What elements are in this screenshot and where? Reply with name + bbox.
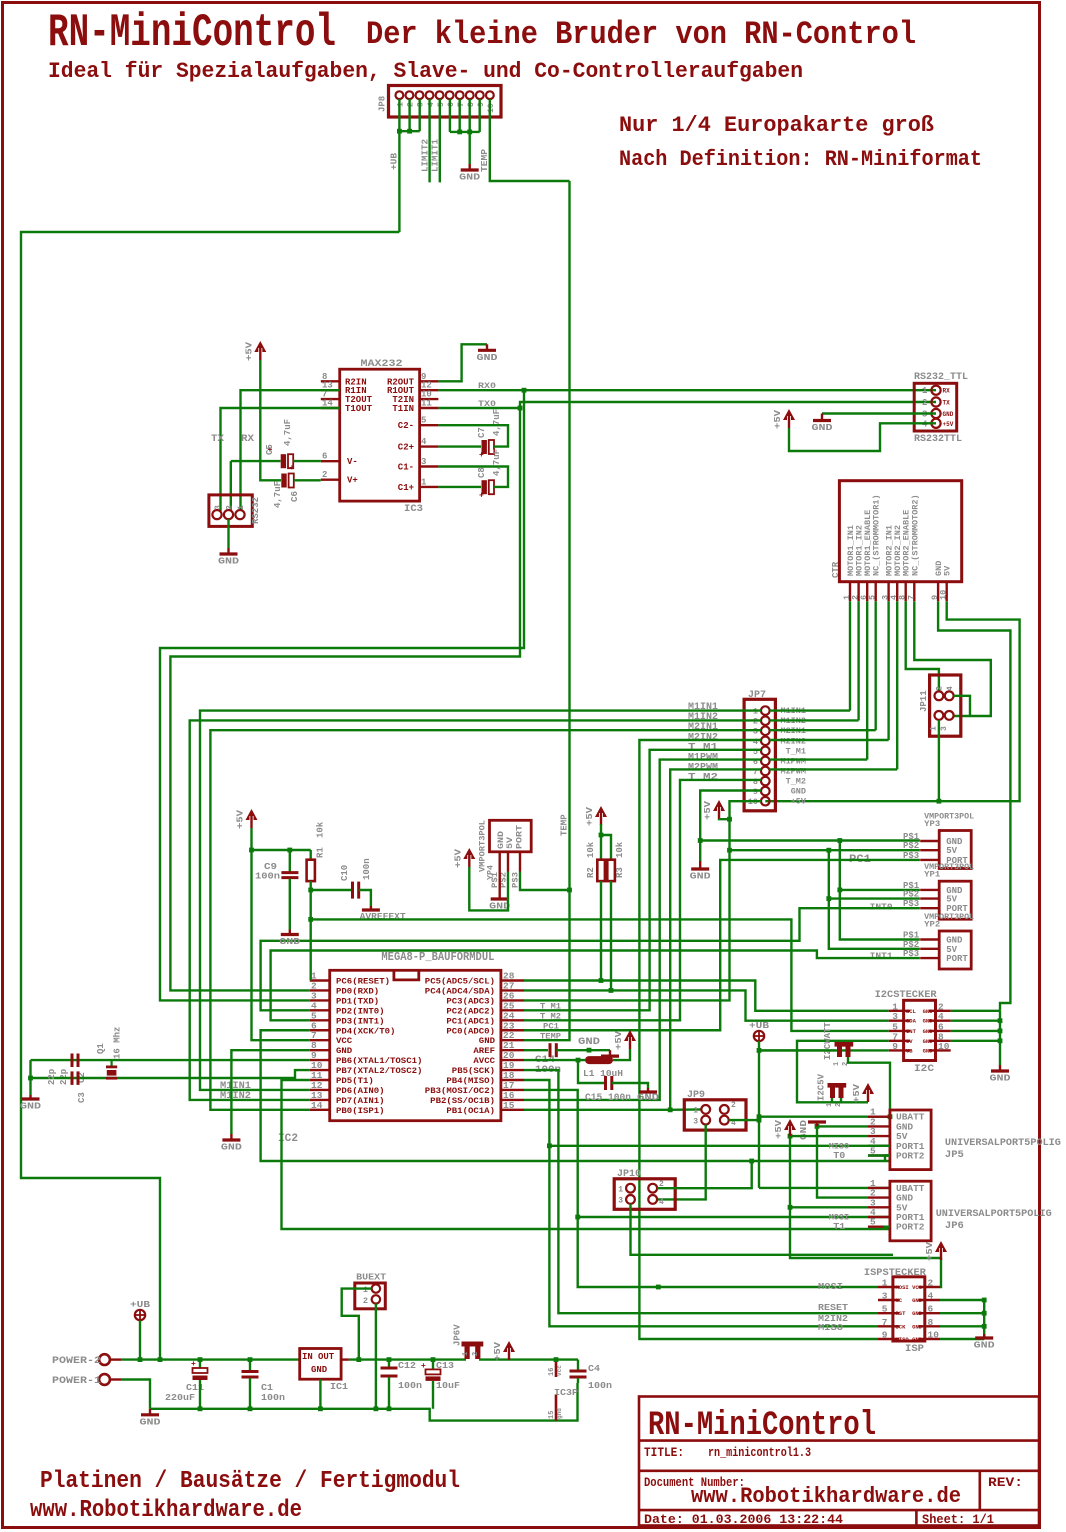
ground GND IC2 pin8 — [221, 1134, 242, 1153]
svg-text:PD7(AIN1): PD7(AIN1) — [336, 1096, 385, 1106]
junction I2C gnd bus — [998, 1038, 1003, 1043]
wire GND bus to YP3 P$1 — [700, 839, 920, 841]
svg-text:P$2: P$2 — [903, 890, 919, 900]
svg-text:4,7uF: 4,7uF — [492, 409, 502, 436]
wire JP8 pin7 down — [459, 99, 461, 132]
junction 5V bus YP1 — [826, 896, 831, 901]
svg-text:MOSI: MOSI — [818, 1281, 843, 1292]
svg-text:7: 7 — [882, 1317, 888, 1328]
svg-text:www.Robotikhardware.de: www.Robotikhardware.de — [30, 1497, 302, 1524]
svg-text:GND: GND — [336, 1046, 352, 1056]
svg-text:Q1: Q1 — [96, 1043, 106, 1054]
svg-text:T1: T1 — [833, 1221, 845, 1232]
svg-text:I2CSTECKER: I2CSTECKER — [875, 989, 938, 1001]
svg-text:YP4: YP4 — [487, 865, 496, 880]
svg-text:TEMP: TEMP — [480, 148, 490, 172]
svg-text:GND: GND — [218, 556, 239, 567]
wire CTR pin4 to M2PWM row — [896, 601, 898, 769]
wire M2PWM to JP9 pin1 — [670, 1108, 701, 1111]
svg-text:M2PWM: M2PWM — [780, 766, 806, 776]
junction TX0 — [518, 406, 523, 411]
wire INT1 YP2 to IC2 pin5 — [271, 951, 920, 1021]
wire C13 top lead — [432, 1360, 434, 1369]
svg-text:GND: GND — [477, 352, 498, 363]
svg-text:5: 5 — [882, 1304, 888, 1315]
ground GND below C9 — [279, 930, 300, 948]
wire R2OUT to GND — [438, 344, 487, 381]
connector RS232 — [209, 495, 261, 527]
svg-text:T_M2: T_M2 — [786, 777, 806, 787]
wire SDA IC2 pin27 to I2C pin3 — [524, 990, 889, 1020]
wire AVCC to L1 — [524, 1059, 585, 1061]
ground GND below JP8 — [459, 164, 480, 183]
svg-text:GND: GND — [279, 936, 300, 947]
junction BUEXT gnd — [374, 1406, 379, 1411]
junction IC1 gnd — [318, 1406, 323, 1411]
svg-text:T_M1: T_M1 — [540, 1002, 561, 1012]
junction 5V bus — [826, 848, 831, 853]
svg-text:I2C5V: I2C5V — [817, 1073, 827, 1101]
svg-text:V+: V+ — [347, 476, 358, 486]
svg-text:+5V: +5V — [773, 409, 783, 429]
connector JP8 — [378, 86, 502, 118]
wire YP4 P$1 to ground — [499, 872, 501, 895]
ground GND at JP5 — [816, 1122, 818, 1126]
wire RS232 pin2 to ground — [227, 519, 229, 548]
svg-text:1: 1 — [826, 1103, 834, 1107]
svg-text:RN-MiniControl: RN-MiniControl — [648, 1407, 876, 1445]
wire JP7 +5V down — [730, 801, 762, 850]
svg-text:GND: GND — [20, 1101, 41, 1112]
svg-text:GND: GND — [923, 1047, 934, 1054]
svg-text:8: 8 — [928, 1317, 934, 1328]
wire I2C right pin to gnd bus — [951, 1010, 1000, 1012]
wire TEMP from JP8 pin10 — [490, 99, 570, 181]
wire JP11 pin4 — [954, 696, 971, 716]
wire JP7 pin1 east to CTR pin1 — [770, 709, 850, 711]
svg-text:+: + — [479, 451, 484, 460]
svg-text:4: 4 — [928, 1291, 934, 1302]
svg-text:SCL: SCL — [906, 1008, 917, 1015]
wire +5V rail to VCC pin7 — [252, 828, 310, 1040]
svg-text:4: 4 — [753, 737, 758, 747]
svg-text:JP7: JP7 — [748, 690, 766, 701]
capacitor C2 22p — [72, 1054, 78, 1068]
capacitor C6 4,7uF — [273, 464, 300, 508]
wire ISP even pin to gnd — [940, 1325, 984, 1327]
wire IC2 pin26 east to 5V bus — [524, 850, 730, 1000]
svg-text:PC0(ADC0): PC0(ADC0) — [446, 1026, 495, 1036]
wire GND bus to YP1 P$1 — [840, 889, 920, 891]
svg-text:+UB: +UB — [390, 152, 400, 170]
svg-text:100n: 100n — [588, 1380, 612, 1391]
junction RX0 — [522, 388, 527, 393]
svg-text:5V: 5V — [946, 846, 957, 856]
svg-text:NC_(STROMMOTOR2): NC_(STROMMOTOR2) — [911, 494, 920, 576]
svg-text:GND: GND — [923, 1038, 934, 1045]
svg-text:3: 3 — [421, 457, 426, 467]
svg-text:10k: 10k — [615, 841, 625, 858]
svg-text:PC3(ADC3): PC3(ADC3) — [446, 996, 495, 1006]
+5V supply arrow at JP7 — [703, 800, 725, 820]
svg-text:2: 2 — [407, 102, 416, 107]
wire M2IN1 JP7 to IC2 pin14 — [210, 730, 761, 1110]
svg-text:4: 4 — [421, 437, 427, 447]
svg-text:5V: 5V — [946, 895, 957, 905]
wire MOSI IC2 pin17 to ISP pin1 — [524, 1090, 878, 1287]
svg-text:C2+: C2+ — [398, 443, 414, 453]
svg-text:VCC: VCC — [912, 1284, 923, 1291]
svg-text:C2-: C2- — [398, 421, 414, 431]
wire POWER-1 to GND rail — [121, 1380, 150, 1409]
ground GND above IC3 — [477, 344, 498, 363]
junction ISP gnd bus — [982, 1311, 987, 1316]
svg-text:PB2(SS/OC1B): PB2(SS/OC1B) — [430, 1096, 495, 1106]
wire C11 top lead — [199, 1360, 201, 1368]
svg-text:T_M2: T_M2 — [540, 1012, 561, 1022]
svg-text:10k: 10k — [316, 821, 326, 838]
wire XTAL2 to crystal/C3 — [31, 1070, 310, 1078]
junction 5V JP5 — [788, 1134, 793, 1139]
svg-text:L1 10uH: L1 10uH — [583, 1068, 623, 1079]
svg-text:RX: RX — [241, 434, 254, 445]
junction AVREFEXT — [308, 917, 313, 922]
wire I2C pin7 to +5V via I2C5V — [797, 1041, 889, 1103]
connector CTR motor control — [831, 481, 962, 602]
junction GND bus — [698, 838, 703, 843]
wire RESET vertical — [310, 890, 312, 981]
junction +UB left rail — [158, 1357, 163, 1362]
wire R1 bottom lead — [310, 881, 312, 890]
svg-text:5V: 5V — [944, 566, 953, 576]
svg-text:MAX232: MAX232 — [361, 359, 403, 370]
wire 5V rail east — [479, 1358, 578, 1360]
wire +UB left rail — [21, 232, 399, 1360]
svg-text:GND: GND — [912, 1323, 923, 1330]
svg-text:C10: C10 — [340, 865, 350, 881]
svg-text:1: 1 — [397, 102, 406, 107]
wire JP9 pin4 to UB rail — [729, 1119, 759, 1121]
wire JP8 pins1-3 join — [399, 130, 419, 132]
svg-text:PORT2: PORT2 — [896, 1151, 925, 1162]
wire JP7 pin2 east to CTR pin2 — [770, 719, 859, 721]
junction C11 gnd — [198, 1406, 203, 1411]
svg-text:PC1: PC1 — [543, 1022, 559, 1032]
wire GND rail bottom — [150, 1383, 578, 1421]
jumper I2C5V — [828, 1083, 847, 1098]
svg-text:4,7uF: 4,7uF — [283, 419, 293, 446]
wire R1 to C10 — [311, 889, 351, 891]
junction C11 top — [198, 1357, 203, 1362]
wire JP7 pin4 east to CTR pin3 — [770, 739, 889, 741]
junction SCL R2 — [599, 978, 604, 983]
svg-text:www.Robotikhardware.de: www.Robotikhardware.de — [691, 1484, 961, 1509]
svg-text:GND: GND — [912, 1310, 923, 1317]
svg-text:C8: C8 — [477, 467, 487, 478]
svg-text:Ideal für Spezialaufgaben, Sla: Ideal für Spezialaufgaben, Slave- und Co… — [48, 59, 803, 84]
svg-text:5: 5 — [870, 1217, 876, 1228]
svg-text:1: 1 — [833, 1062, 841, 1066]
svg-text:C3: C3 — [77, 1092, 87, 1103]
wire R1 top lead — [310, 850, 312, 860]
svg-text:GND: GND — [912, 1336, 923, 1343]
svg-text:NC: NC — [896, 1297, 903, 1304]
svg-text:1: 1 — [882, 1278, 888, 1289]
svg-text:+5V: +5V — [791, 797, 807, 807]
wire MISO to JP5 PORT1 — [549, 1145, 890, 1147]
wire UBATT to JP6 pin1 — [759, 1187, 890, 1189]
wire R2 top — [600, 824, 602, 860]
wire JP8 pins6-9 join — [450, 131, 480, 133]
svg-text:vcc: vcc — [556, 1365, 563, 1376]
svg-text:4: 4 — [427, 102, 436, 107]
wire JP5 GND — [817, 1125, 868, 1127]
connector YP2 VMPORT3POL — [903, 913, 974, 969]
ground GND below RS232 — [218, 548, 239, 567]
wire JP5 PORT1 stub — [868, 1145, 890, 1147]
wire I2C pin9 to +UB — [759, 1049, 889, 1051]
wire M1PWM JP7 to IC2 pin16 — [524, 760, 761, 1100]
svg-text:2: 2 — [835, 1103, 843, 1107]
wire JP8 pin1 down — [398, 99, 400, 131]
svg-text:LIMIT1: LIMIT1 — [431, 138, 441, 172]
wire I2C right pin to gnd bus — [951, 1020, 1000, 1022]
wire PC1 YP3 to IC2 pin23 — [524, 860, 920, 1030]
connector YP4 VMPORT3POL — [479, 820, 532, 888]
svg-text:LIMIT2: LIMIT2 — [421, 139, 431, 172]
resistor R3 10k — [607, 860, 615, 881]
junction BUEXT rail — [356, 1357, 361, 1362]
svg-text:C1-: C1- — [398, 463, 414, 473]
svg-text:PB7(XTAL2/TOSC2): PB7(XTAL2/TOSC2) — [336, 1066, 422, 1076]
svg-text:YP3: YP3 — [924, 820, 940, 829]
svg-text:4,7uF: 4,7uF — [492, 449, 502, 476]
svg-text:JP9: JP9 — [687, 1090, 705, 1101]
junction JP8 gnd a — [457, 130, 462, 135]
svg-text:IC3: IC3 — [404, 504, 423, 515]
svg-text:1: 1 — [462, 1352, 470, 1356]
wire C9 bottom lead — [289, 879, 291, 930]
wire RX to RS232 pin1 — [241, 390, 340, 511]
junction GND bus to YP1/YP2 — [837, 838, 842, 843]
wire 5V bus to YP1 P$2 — [829, 897, 920, 899]
junction I2C gnd bus — [998, 1029, 1003, 1034]
svg-text:INT1: INT1 — [870, 952, 894, 962]
svg-text:C15 100n: C15 100n — [585, 1093, 631, 1104]
svg-text:M1PWM: M1PWM — [780, 756, 806, 766]
wire IC1 GND lead — [319, 1379, 321, 1409]
svg-text:100n: 100n — [255, 871, 280, 882]
svg-text:RS232: RS232 — [251, 497, 261, 524]
wire GND to JP6 pin2 — [817, 1126, 868, 1197]
svg-text:5: 5 — [437, 102, 446, 107]
svg-text:POWER-2: POWER-2 — [52, 1356, 101, 1367]
wire ISP even pin to gnd — [940, 1338, 984, 1340]
svg-text:PB1(OC1A): PB1(OC1A) — [446, 1106, 495, 1116]
svg-text:T1IN: T1IN — [392, 404, 414, 414]
wire JP8 pin3 down — [419, 99, 421, 131]
wire YP4 P$2 to +5V — [469, 867, 508, 910]
svg-text:PORT2: PORT2 — [896, 1222, 925, 1233]
svg-text:PD4(XCK/T0): PD4(XCK/T0) — [336, 1026, 395, 1036]
wire C10 to GND — [359, 890, 371, 906]
wire I2C right pin to gnd bus — [951, 1040, 1000, 1042]
ground GND below JP7 — [690, 861, 711, 882]
svg-text:1: 1 — [618, 1186, 623, 1195]
regulator IC1 — [300, 1349, 349, 1393]
+UB supply at I2C — [749, 1020, 769, 1041]
svg-text:GND: GND — [974, 1340, 995, 1351]
junction C12 top — [387, 1357, 392, 1362]
svg-text:5V: 5V — [505, 836, 515, 849]
crystal Q1 16 MHz — [96, 1027, 123, 1079]
svg-text:220uF: 220uF — [165, 1392, 195, 1403]
wire +UB to I2CWATT pin1 — [759, 1049, 836, 1051]
svg-text:TX: TX — [211, 434, 224, 445]
svg-text:1: 1 — [930, 726, 939, 731]
junction +5V C9/R1 — [249, 848, 254, 853]
svg-text:7: 7 — [906, 595, 916, 600]
junction R1 bottom — [308, 888, 313, 893]
wire ISP pin2 to +5V — [940, 1258, 941, 1287]
junction MOSI branch — [656, 1285, 661, 1290]
svg-text:16 Mhz: 16 Mhz — [113, 1027, 123, 1059]
svg-text:Der kleine Bruder von RN-Contr: Der kleine Bruder von RN-Control — [366, 16, 916, 53]
+UB supply at power input — [130, 1299, 150, 1320]
svg-text:REV:: REV: — [988, 1475, 1023, 1490]
junction I2C gnd bus — [998, 1018, 1003, 1023]
connector BUEXT — [355, 1272, 387, 1309]
wire I2C right pin to gnd bus — [951, 1030, 1000, 1032]
ground GND at C15 — [639, 1088, 657, 1092]
wire +5V to R1 top — [252, 849, 311, 851]
svg-text:10: 10 — [939, 590, 949, 600]
svg-text:PD3(INT1): PD3(INT1) — [336, 1016, 385, 1026]
svg-text:RESET: RESET — [818, 1302, 848, 1313]
+5V supply arrow at IC3 — [244, 341, 266, 361]
ground GND at I2C — [990, 1065, 1011, 1084]
wire RESET net IC2 pin19 to ISP pin5 — [524, 1070, 878, 1313]
wire M1IN2 JP7 to IC2 pin13 — [190, 720, 761, 1100]
svg-text:C5: C5 — [265, 444, 275, 455]
+5V supply arrow at ISP — [925, 1241, 947, 1261]
svg-text:JP10: JP10 — [617, 1169, 641, 1180]
wire R3 top — [601, 835, 611, 860]
svg-text:100n: 100n — [261, 1392, 285, 1403]
svg-text:UNIVERSALPORT5POLIG: UNIVERSALPORT5POLIG — [945, 1137, 1061, 1149]
svg-text:GND: GND — [459, 172, 480, 183]
connector ISP ISPSTECKER — [864, 1267, 940, 1355]
svg-text:6: 6 — [447, 102, 456, 107]
svg-text:T_M2: T_M2 — [688, 773, 718, 784]
+5V supply arrow at JP5 — [774, 1119, 796, 1139]
svg-text:10: 10 — [938, 1041, 950, 1052]
wire CTR pin3 to M2IN2 row — [887, 601, 889, 740]
svg-text:Date: 01.03.2006 13:22:44: Date: 01.03.2006 13:22:44 — [644, 1512, 843, 1527]
svg-text:+5V: +5V — [614, 1030, 624, 1050]
wire CTR pin7 to JP11 pin3 — [914, 601, 991, 716]
junction JP10 T0 — [749, 1159, 754, 1164]
svg-text:5: 5 — [421, 416, 426, 426]
junction YP4 TEMP — [567, 888, 572, 893]
junction ISP gnd bus — [982, 1324, 987, 1329]
svg-text:PB4(MISO): PB4(MISO) — [446, 1076, 495, 1086]
wire IC1 OUT to JP6V — [349, 1358, 466, 1360]
connector JP11 — [919, 675, 961, 736]
wire AVREFEXT to I2C pin5 — [311, 919, 889, 1031]
svg-text:TX0: TX0 — [478, 399, 496, 409]
wire I2C gnd bus down — [999, 1011, 1001, 1065]
wire C4 top lead — [577, 1360, 579, 1370]
svg-text:PB6(XTAL1/TOSC1): PB6(XTAL1/TOSC1) — [336, 1056, 422, 1066]
wire power rail to IC1 IN — [121, 1358, 300, 1360]
wire C5 to V- — [293, 460, 321, 462]
svg-text:YP1: YP1 — [924, 871, 940, 880]
wire LIMIT2 — [428, 99, 430, 182]
ground GND power — [140, 1409, 161, 1428]
svg-text:gnd: gnd — [556, 1408, 563, 1419]
svg-text:5: 5 — [868, 595, 878, 600]
wire TX0 to IC2 PD0 row — [170, 408, 520, 990]
wire 5V bus to YP3 P$2 — [730, 849, 920, 851]
wire +UB vertical — [758, 1041, 760, 1188]
wire L1 to +5V — [613, 1049, 630, 1060]
svg-text:PD0(RXD): PD0(RXD) — [336, 986, 379, 996]
svg-text:3: 3 — [882, 1291, 888, 1302]
wire C14 to GND — [556, 1049, 610, 1051]
svg-text:IC1: IC1 — [330, 1381, 348, 1392]
wire RS232TTL +5V — [789, 423, 936, 451]
connector I2C I2CSTECKER — [875, 989, 951, 1075]
wire JP5 PORT2 stub — [868, 1154, 890, 1156]
connector JP10 — [614, 1169, 675, 1209]
svg-text:+5V: +5V — [585, 806, 595, 826]
junction JP11 to 5V line — [937, 799, 942, 804]
svg-text:T1OUT: T1OUT — [345, 404, 373, 414]
svg-text:14: 14 — [311, 1100, 323, 1111]
+5V supply arrow at I2C5V — [852, 1083, 874, 1103]
wire BUEXT pin2 to GND rail — [375, 1304, 377, 1409]
wire down to RS232 pin2 — [230, 461, 232, 511]
junction pin26 bus — [727, 848, 732, 853]
svg-text:PC2(ADC2): PC2(ADC2) — [446, 1006, 495, 1016]
junction JP8 gnd b — [467, 130, 472, 135]
svg-text:8: 8 — [753, 777, 758, 787]
op-amp/driver IC3 MAX232 body — [340, 359, 423, 515]
IC2 right pin stubs and names — [501, 981, 524, 1110]
svg-text:JP5: JP5 — [945, 1149, 964, 1161]
wire CTR pin1 to M1IN1 row — [849, 601, 851, 710]
svg-text:PC5(ADC5/SCL): PC5(ADC5/SCL) — [425, 977, 495, 987]
svg-text:OUT: OUT — [318, 1352, 335, 1362]
svg-text:7: 7 — [457, 102, 466, 107]
wire C9 top lead — [289, 850, 291, 872]
svg-text:1: 1 — [922, 386, 928, 396]
svg-text:IC3P: IC3P — [554, 1387, 578, 1398]
svg-text:Nach Definition: RN-Miniformat: Nach Definition: RN-Miniformat — [619, 147, 982, 172]
wire RS232TTL gnd — [822, 412, 936, 414]
svg-text:SCK: SCK — [896, 1323, 907, 1330]
+5V supply arrow at R2/R3 — [585, 806, 607, 826]
svg-text:SDA: SDA — [906, 1018, 917, 1025]
wire TX to RS232 pin3 — [221, 408, 340, 511]
svg-text:+5V: +5V — [943, 421, 954, 428]
svg-text:9: 9 — [753, 787, 758, 797]
wire C1+ to C8 — [438, 486, 481, 488]
svg-text:JP11: JP11 — [919, 690, 929, 712]
svg-text:6: 6 — [928, 1304, 934, 1315]
svg-text:GND: GND — [923, 1008, 934, 1015]
